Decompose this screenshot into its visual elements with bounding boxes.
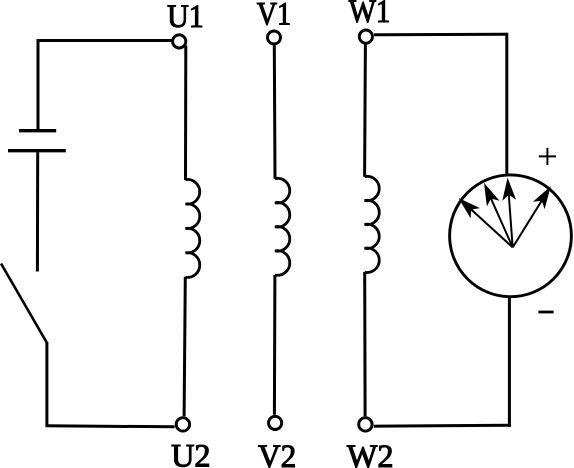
wire switch bottom vertical xyxy=(45,342,48,427)
svg-text:W2: W2 xyxy=(347,439,394,468)
galvanometer needle arrow 2 xyxy=(485,186,512,247)
switch S blade (open) xyxy=(1,264,47,344)
winding L-V (phase V stator coil) xyxy=(275,178,290,275)
galvanometer needle arrow 4 (rightmost) xyxy=(513,189,549,247)
galvanometer G body xyxy=(450,175,572,297)
polarity mark + (galvanometer positive terminal) xyxy=(539,148,556,165)
terminal U1 xyxy=(173,35,186,48)
battery E long plate (bottom) xyxy=(8,149,66,152)
wire V column upper (V1 to winding) xyxy=(273,45,277,178)
svg-text:V1: V1 xyxy=(257,0,291,33)
winding L-U (phase U stator coil) xyxy=(186,179,200,277)
wire U column lower (winding to U2) xyxy=(184,277,185,416)
terminal V2 xyxy=(269,416,282,429)
terminal U2 xyxy=(176,418,189,431)
terminal W2 xyxy=(359,418,372,431)
svg-text:V2: V2 xyxy=(258,439,296,468)
svg-text:W1: W1 xyxy=(349,0,391,30)
wire top-left horizontal (battery top to U1) xyxy=(37,39,172,42)
wire bottom-left horizontal (switch to U2) xyxy=(46,426,175,427)
wire bottom-right horizontal (galvanometer to W2) xyxy=(374,424,511,428)
wire W column lower (winding to W2) xyxy=(363,272,366,416)
terminal V1 xyxy=(268,31,281,44)
svg-text:U2: U2 xyxy=(171,438,211,468)
wire battery bottom to switch fixed contact xyxy=(36,152,39,271)
wire galvanometer bottom vertical xyxy=(508,298,511,427)
wire U column upper (U1 to winding) xyxy=(184,46,187,181)
terminal W1 xyxy=(359,30,372,43)
svg-text:U1: U1 xyxy=(167,0,204,35)
battery E short plate (top) xyxy=(19,129,56,132)
polarity mark - (galvanometer negative terminal) xyxy=(538,311,553,314)
wire W column upper (W1 to winding) xyxy=(363,44,367,176)
winding L-W (phase W stator coil) xyxy=(365,176,380,272)
wire left vertical (top corner down to battery + plate) xyxy=(37,39,40,129)
wire right vertical down to galvanometer xyxy=(505,33,508,174)
galvanometer needle arrow 1 (leftmost) xyxy=(461,200,513,247)
galvanometer needle arrow 3 (near vertical) xyxy=(504,181,514,247)
wire V column lower (winding to V2) xyxy=(273,275,277,415)
wire W1 to top-right corner xyxy=(374,33,507,37)
